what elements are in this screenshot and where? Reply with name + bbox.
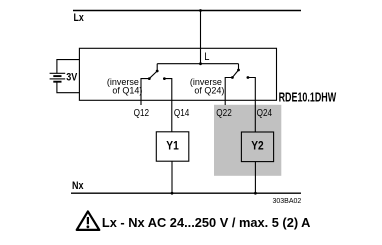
net Lx (top supply line) (73, 10, 301, 12)
svg-text:Lx - Nx AC 24...250 V / max. 5: Lx - Nx AC 24...250 V / max. 5 (2) A (102, 215, 311, 230)
wire Y2 to Nx (254, 162, 256, 194)
svg-text:Q22: Q22 (216, 107, 231, 118)
node on Lx (junction dot) (199, 9, 202, 12)
wire terminal Q12 (141, 79, 149, 105)
wire terminal Q22 (225, 78, 232, 106)
warning triangle symbol (77, 211, 100, 230)
wire from Lx down to node L (200, 11, 202, 64)
svg-text:of Q24): of Q24) (194, 86, 224, 96)
battery B1 3V plates (50, 72, 66, 74)
junction dot Y1/Nx (171, 192, 174, 195)
switch S1 (changeover contact Q12/Q14) (156, 64, 158, 71)
relay coil Y2 (241, 132, 273, 162)
switch S2 (changeover contact Q22/Q24) (238, 64, 240, 70)
svg-text:3V: 3V (66, 72, 77, 84)
relay coil Y1 (156, 132, 189, 161)
svg-text:Y1: Y1 (166, 140, 178, 153)
svg-text:303BA02: 303BA02 (272, 198, 301, 205)
svg-text:L: L (204, 51, 209, 63)
controller box RDE10.1DHW (79, 48, 276, 100)
node L (junction dot) (199, 62, 202, 65)
svg-text:of Q14): of Q14) (112, 86, 142, 96)
junction dot Y2/Nx (254, 192, 257, 195)
wire terminal Q14 to Y1 (164, 79, 171, 132)
svg-text:Lx: Lx (74, 12, 85, 24)
svg-text:Q14: Q14 (174, 107, 189, 118)
svg-text:Q24: Q24 (257, 107, 272, 118)
wire node L to right switch (201, 63, 239, 65)
svg-text:RDE10.1DHW: RDE10.1DHW (279, 91, 337, 105)
net Nx (bottom neutral line) (71, 192, 301, 194)
gray highlight zone (Y2 section) (214, 105, 281, 176)
wire node L to left switch (157, 63, 200, 65)
wire terminal Q24 to Y2 (248, 78, 255, 133)
svg-text:Q12: Q12 (134, 107, 149, 118)
wire Y1 to Nx (171, 161, 173, 193)
battery B1 wires (57, 60, 80, 74)
svg-text:Y2: Y2 (251, 140, 263, 153)
svg-text:Nx: Nx (72, 180, 84, 192)
